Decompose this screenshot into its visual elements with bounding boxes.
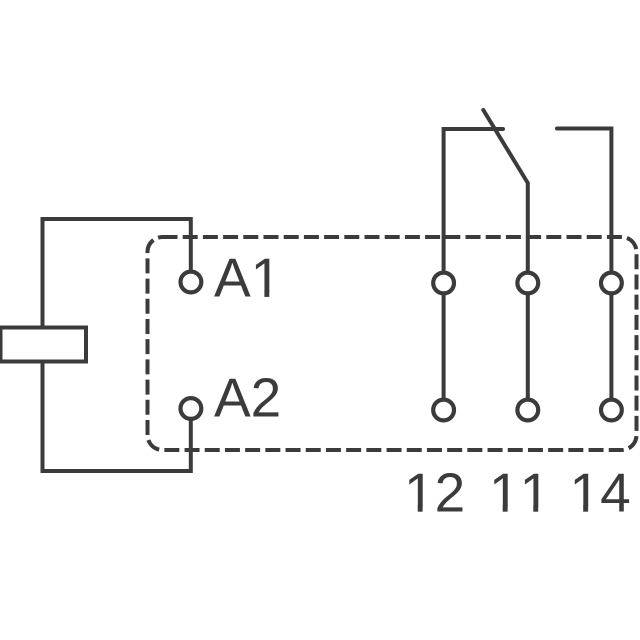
switch arm (common, pin 11) [483,110,528,410]
terminal 11 bottom [517,400,538,421]
terminal 12 top [433,273,454,294]
relay enclosure dashed outline [148,237,637,450]
terminal 11 top [517,273,538,294]
svg-text:A2: A2 [214,366,281,428]
wire pin 12 with NC contact bar [444,129,503,410]
terminal A1 [181,272,202,293]
svg-text:11: 11 [489,462,550,524]
wire coil loop (top, left, bottom) [43,219,191,471]
wire pin 14 with NO contact bar [557,129,611,411]
terminal 14 bottom [601,400,622,421]
svg-text:14: 14 [570,462,631,524]
terminal A2 [181,398,202,419]
svg-text:12: 12 [404,462,465,524]
terminal 14 top [601,273,622,294]
svg-text:A1: A1 [214,247,281,309]
coil K1 [1,328,87,362]
terminal 12 bottom [433,400,454,421]
